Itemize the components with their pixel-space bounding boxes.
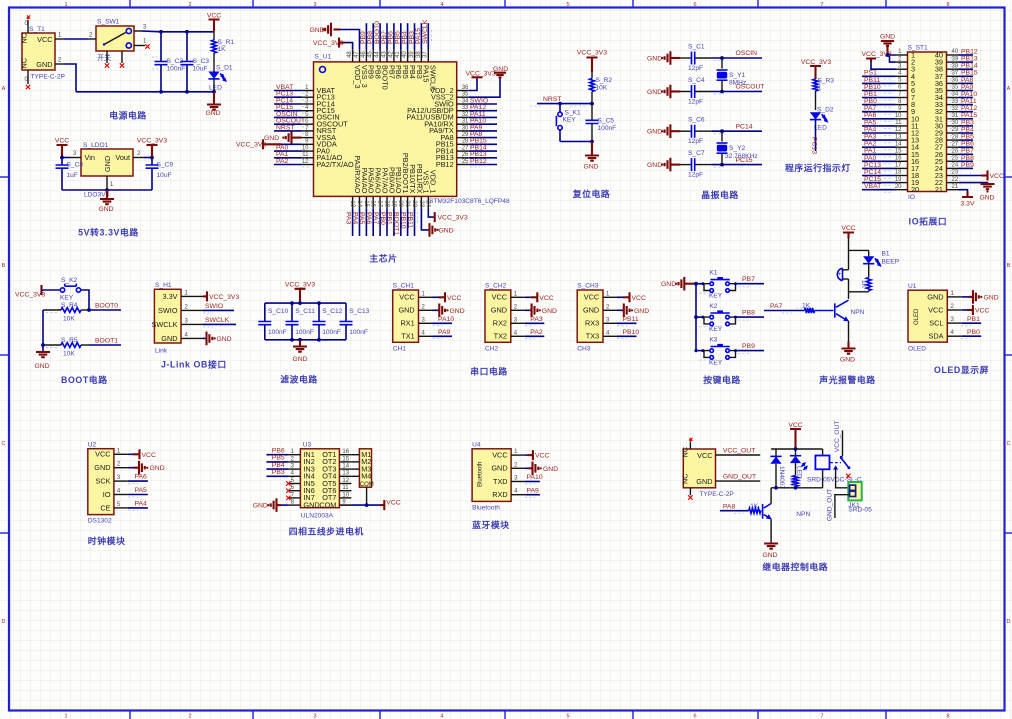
svg-text:B1: B1	[882, 251, 890, 258]
wire net PA4 clock	[128, 501, 148, 511]
svg-text:20: 20	[911, 185, 919, 194]
ground GND at OLED pin1	[962, 290, 999, 304]
svg-text:4: 4	[440, 2, 443, 8]
svg-text:PB5: PB5	[961, 134, 974, 141]
power VCC alarm	[841, 225, 855, 250]
svg-text:DS1302: DS1302	[88, 518, 112, 525]
svg-text:主芯片: 主芯片	[369, 252, 397, 263]
LDO1 regulator	[81, 142, 133, 199]
svg-text:PB7: PB7	[742, 276, 755, 283]
svg-text:6: 6	[693, 714, 696, 719]
svg-text:SCK: SCK	[95, 477, 110, 486]
LED D3 alarm	[863, 250, 880, 265]
svg-text:U2: U2	[88, 441, 97, 448]
svg-text:13: 13	[895, 134, 902, 140]
svg-text:TYPE-C-2P: TYPE-C-2P	[699, 491, 734, 498]
transistor Q2 NPN relay	[763, 488, 811, 544]
svg-text:12pF: 12pF	[688, 99, 703, 106]
svg-text:PB1: PB1	[967, 316, 980, 323]
svg-text:VCC_3V3: VCC_3V3	[862, 51, 892, 58]
svg-text:PB0: PB0	[864, 98, 877, 105]
svg-text:GND: GND	[253, 503, 268, 510]
svg-text:10K: 10K	[596, 85, 608, 92]
svg-text:GND: GND	[583, 164, 598, 171]
svg-text:串口电路: 串口电路	[470, 366, 508, 377]
LED D relay	[790, 449, 807, 479]
svg-text:3: 3	[313, 714, 316, 719]
svg-text:NC: NC	[681, 447, 690, 458]
transistor Q1 NPN alarm	[835, 292, 865, 342]
connector JK1 SRD-05	[848, 482, 872, 514]
svg-text:15: 15	[895, 149, 902, 155]
svg-text:NC: NC	[20, 58, 29, 69]
svg-text:Vin: Vin	[85, 153, 95, 162]
resistor R5	[43, 337, 89, 358]
SW1 pin 2	[88, 33, 96, 40]
crystal Y2	[717, 129, 758, 166]
S_CH3 pins	[603, 291, 617, 336]
svg-text:蓝牙模块: 蓝牙模块	[472, 519, 510, 530]
svg-text:38: 38	[416, 51, 422, 58]
svg-text:20: 20	[895, 184, 902, 190]
svg-text:4: 4	[440, 714, 443, 719]
svg-text:VCC_3V3: VCC_3V3	[137, 138, 167, 145]
svg-text:ULN2003A: ULN2003A	[301, 513, 334, 520]
svg-text:IO拓展口: IO拓展口	[909, 215, 948, 226]
alarm bottom rail	[849, 291, 869, 293]
svg-text:VCC: VCC	[990, 173, 1004, 180]
LED D2	[810, 107, 834, 132]
svg-text:VCC: VCC	[142, 452, 156, 459]
svg-text:PA2/TX/AO: PA2/TX/AO	[317, 160, 354, 169]
connector S_CH3 serial	[577, 283, 603, 353]
svg-text:22: 22	[952, 177, 959, 183]
power VCC_3V3 reset	[577, 50, 607, 73]
wire net PB9	[699, 343, 764, 360]
svg-text:1: 1	[64, 2, 67, 8]
power VCC_3V3 indicator	[801, 59, 831, 79]
svg-text:12pF: 12pF	[688, 172, 703, 179]
svg-text:S_Y2: S_Y2	[729, 145, 745, 152]
svg-text:VCC_3V3: VCC_3V3	[466, 70, 496, 77]
svg-text:22: 22	[411, 200, 417, 207]
svg-text:PC13: PC13	[864, 162, 881, 169]
power VCC_3V3 at H1 pin1	[203, 291, 239, 301]
svg-text:13: 13	[349, 200, 355, 207]
S_CH1 pins	[419, 291, 433, 336]
svg-text:1N4007: 1N4007	[778, 466, 785, 489]
wire net PA10 bluetooth	[525, 474, 543, 484]
no connect marks U3 pins 5-7	[286, 481, 290, 500]
svg-text:K1: K1	[709, 270, 717, 277]
svg-text:VCC_3V3: VCC_3V3	[801, 59, 831, 66]
wire net PB1 OLED	[961, 316, 981, 326]
wire T1 VCC to SW1	[64, 38, 88, 40]
svg-text:GND_OUT: GND_OUT	[827, 489, 834, 521]
U3 right pins	[339, 449, 351, 505]
svg-text:34: 34	[462, 98, 469, 104]
ground GND power circuit	[205, 92, 221, 117]
ST1 left net labels	[862, 70, 896, 193]
svg-text:16: 16	[370, 200, 376, 207]
svg-text:PB1: PB1	[864, 91, 877, 98]
svg-text:11: 11	[895, 120, 902, 126]
svg-text:SWCLK: SWCLK	[422, 19, 429, 44]
svg-text:5: 5	[566, 714, 569, 719]
power port VCC top	[207, 13, 221, 32]
wire BOOT left vertical	[41, 310, 45, 352]
svg-text:3.3V: 3.3V	[961, 201, 975, 208]
svg-text:OLED: OLED	[914, 308, 920, 325]
svg-text:S_C12: S_C12	[322, 308, 342, 315]
svg-text:SWCLK: SWCLK	[205, 317, 230, 324]
connector ST1 IO header	[908, 45, 947, 202]
LDO pin 1 GND	[107, 176, 114, 190]
SW1 pin 1	[134, 39, 150, 49]
ground GND at U3 pin8	[253, 498, 289, 512]
svg-text:14: 14	[342, 464, 349, 470]
svg-text:GND_OUT: GND_OUT	[723, 474, 756, 481]
ground GND at H1 pin4	[203, 332, 232, 346]
svg-text:47: 47	[354, 51, 360, 58]
wire net PA9	[433, 329, 453, 339]
svg-text:Bluetooth: Bluetooth	[472, 505, 500, 512]
svg-text:1K: 1K	[218, 46, 227, 53]
svg-text:GND: GND	[840, 357, 855, 364]
op-amp U3 ULN2003A body	[300, 441, 339, 519]
svg-text:PB3: PB3	[961, 119, 974, 126]
wire net PB10	[617, 329, 639, 339]
LED D1	[208, 65, 232, 92]
power 3.3V at ST1 pin 21	[959, 190, 975, 208]
svg-text:100nF: 100nF	[295, 329, 314, 336]
svg-text:32: 32	[462, 112, 469, 118]
svg-text:35: 35	[462, 92, 469, 98]
svg-text:BOOT1: BOOT1	[393, 212, 400, 235]
svg-text:36: 36	[462, 85, 469, 91]
capacitor S_C1	[680, 44, 712, 73]
svg-text:19: 19	[895, 177, 902, 183]
svg-text:VCC: VCC	[975, 307, 989, 314]
ground GND at S_CH3 pin2	[617, 304, 649, 318]
wire net GND_OUT from TYPE-C	[716, 474, 761, 482]
svg-text:S_U1: S_U1	[315, 54, 332, 61]
power port VCC for LDO	[55, 138, 69, 158]
svg-text:PA5: PA5	[135, 487, 148, 494]
wire COM net to VCC	[339, 487, 400, 510]
svg-text:B: B	[1007, 263, 1011, 269]
T1 pin 1 VCC	[55, 33, 64, 40]
buzzer B1 BEEP	[837, 250, 899, 291]
svg-text:29: 29	[462, 132, 469, 138]
svg-text:GND: GND	[762, 552, 777, 559]
U1 left pins with numbers	[302, 85, 314, 165]
svg-text:PB10: PB10	[623, 329, 640, 336]
svg-text:OLED: OLED	[908, 346, 926, 353]
svg-text:U4: U4	[472, 441, 481, 448]
svg-text:1K: 1K	[802, 303, 811, 310]
U4 pins	[511, 449, 525, 495]
relay switch contact	[830, 456, 850, 478]
svg-text:GND: GND	[880, 34, 895, 41]
svg-text:10K: 10K	[63, 351, 75, 358]
svg-text:GND: GND	[634, 308, 649, 315]
svg-text:PA3: PA3	[344, 212, 351, 225]
svg-text:PB6: PB6	[272, 448, 285, 455]
svg-text:VBAT: VBAT	[864, 183, 881, 190]
svg-text:KEY: KEY	[60, 295, 74, 302]
svg-text:PA2: PA2	[276, 158, 289, 165]
svg-text:S_C9: S_C9	[157, 162, 174, 169]
wire net VCC_OUT vertical	[834, 421, 843, 456]
svg-text:42: 42	[388, 51, 394, 58]
svg-text:按键电路: 按键电路	[703, 374, 741, 385]
svg-text:12: 12	[895, 127, 902, 133]
ground GND at U1 pin 23 VSS_1	[421, 208, 453, 236]
power VCC at S_CH1 pin1	[433, 292, 462, 302]
S_CH2 pins	[511, 291, 525, 336]
svg-text:PB8: PB8	[742, 310, 755, 317]
wire net PA6 clock	[128, 474, 148, 484]
svg-text:PA6: PA6	[365, 212, 372, 225]
svg-text:PA1: PA1	[864, 148, 877, 155]
svg-text:PB3: PB3	[272, 469, 285, 476]
U1 left net label wires	[274, 84, 311, 167]
svg-text:41: 41	[395, 51, 401, 58]
svg-text:继电器控制电路: 继电器控制电路	[762, 561, 828, 572]
svg-text:CH3: CH3	[577, 346, 591, 353]
svg-text:SWCLK: SWCLK	[429, 65, 438, 91]
H1 pins	[181, 290, 203, 338]
svg-text:48: 48	[347, 51, 353, 58]
push button K1	[694, 270, 735, 300]
svg-text:电源电路: 电源电路	[109, 110, 147, 121]
ST1 left pins	[895, 49, 908, 190]
svg-text:PA5: PA5	[864, 119, 877, 126]
T1 pin 2 GND	[55, 58, 64, 65]
resistor R2	[590, 72, 613, 104]
capacitor S_C4	[680, 77, 712, 106]
diode D 1N4007	[770, 449, 784, 489]
svg-text:18: 18	[895, 170, 902, 176]
svg-text:S_C8: S_C8	[67, 162, 84, 169]
svg-text:44: 44	[375, 51, 381, 58]
ground GND for S_C4	[647, 85, 680, 99]
crystal Y1	[717, 56, 747, 93]
ground GND for S_C6	[647, 124, 680, 138]
svg-text:SCL: SCL	[929, 319, 943, 328]
svg-text:2: 2	[188, 714, 191, 719]
svg-text:PB11: PB11	[864, 77, 880, 84]
LDO pin 3	[62, 151, 81, 158]
svg-text:OLED显示屏: OLED显示屏	[934, 365, 989, 375]
svg-text:晶振电路: 晶振电路	[701, 189, 739, 200]
svg-text:BEEP: BEEP	[882, 259, 900, 266]
svg-text:C: C	[2, 441, 6, 447]
ground GND at ST1 pin 22	[959, 183, 995, 202]
svg-text:S_R1: S_R1	[218, 39, 235, 46]
svg-text:PA11: PA11	[961, 98, 977, 105]
wire net BOOT1	[89, 338, 121, 346]
svg-text:PB7: PB7	[961, 148, 974, 155]
capacitor C10	[258, 303, 288, 340]
keys left vertical wire	[694, 282, 698, 351]
svg-text:PB12: PB12	[470, 158, 487, 165]
svg-text:VCC: VCC	[584, 293, 599, 302]
svg-text:SWCLK: SWCLK	[152, 320, 178, 329]
svg-text:PB10: PB10	[399, 212, 406, 229]
wire net GND_OUT vertical	[827, 489, 850, 521]
svg-text:PA7: PA7	[770, 303, 783, 310]
svg-text:15: 15	[363, 200, 369, 207]
svg-text:20: 20	[397, 200, 403, 207]
power VCC_3V3 at ST1 pin 3	[862, 51, 896, 69]
svg-text:PB9: PB9	[961, 162, 974, 169]
svg-text:SWIO: SWIO	[158, 306, 178, 315]
svg-text:IO: IO	[908, 194, 915, 201]
svg-text:3.3V: 3.3V	[162, 292, 177, 301]
svg-text:16: 16	[342, 449, 349, 455]
ground GND at U1 pin 47 VSS_3	[310, 23, 360, 50]
svg-text:PA4: PA4	[351, 212, 358, 225]
SW1 pin 3	[134, 25, 147, 32]
wire net SWIO	[203, 303, 234, 313]
svg-text:17: 17	[895, 163, 902, 169]
U2 pins	[114, 448, 128, 508]
svg-text:PA7: PA7	[372, 212, 379, 225]
svg-text:GND: GND	[491, 464, 507, 473]
capacitor C2	[152, 32, 185, 92]
power port VCC_3V3 for LDO out	[137, 138, 167, 158]
wires U3 outputs to motor header	[351, 455, 359, 477]
svg-text:PA12: PA12	[961, 105, 977, 112]
power VCC_3V3 at U1 pin 24 VDD_1	[428, 208, 468, 222]
svg-text:S_H1: S_H1	[155, 282, 172, 289]
wire VCC_3V3 to K2	[42, 289, 61, 291]
svg-text:15: 15	[342, 456, 349, 462]
svg-text:GND: GND	[398, 306, 414, 315]
svg-text:PB11: PB11	[623, 316, 639, 323]
svg-text:S_CH3: S_CH3	[577, 283, 599, 290]
svg-text:NRST: NRST	[543, 96, 562, 103]
svg-text:GND: GND	[98, 206, 113, 213]
svg-text:TX2: TX2	[494, 332, 507, 341]
svg-text:GND: GND	[303, 500, 319, 509]
svg-text:37: 37	[423, 51, 429, 58]
wire K2 to BOOT0	[81, 290, 89, 310]
wire net OSCOUT	[712, 84, 765, 94]
U1 left pin names	[317, 86, 354, 169]
capacitor C13	[340, 303, 370, 340]
svg-text:S_R4: S_R4	[61, 302, 78, 309]
svg-text:VDD_1: VDD_1	[429, 170, 438, 194]
svg-text:19: 19	[390, 200, 396, 207]
svg-text:VCC_3V3: VCC_3V3	[285, 282, 315, 289]
capacitor C11	[286, 303, 316, 340]
ST1 right pins	[947, 49, 959, 190]
svg-text:VCC: VCC	[535, 453, 549, 460]
resistor R3	[813, 78, 834, 111]
svg-text:VCC_3V3: VCC_3V3	[209, 294, 239, 301]
svg-text:S_R5: S_R5	[61, 337, 78, 344]
svg-text:GND: GND	[543, 466, 558, 473]
push button K2	[694, 303, 735, 333]
svg-text:Vout: Vout	[115, 153, 130, 162]
svg-text:OSCIN: OSCIN	[736, 50, 758, 57]
filter bottom rail	[265, 338, 346, 342]
svg-text:13: 13	[342, 471, 349, 477]
svg-text:PB9: PB9	[742, 343, 755, 350]
svg-text:VCC: VCC	[55, 138, 69, 145]
svg-text:NRST: NRST	[276, 124, 295, 131]
svg-text:GND: GND	[647, 55, 662, 62]
svg-text:开关: 开关	[97, 53, 111, 62]
U1 right net label wires	[469, 97, 497, 167]
svg-text:PB11: PB11	[406, 212, 413, 228]
svg-text:1K: 1K	[860, 280, 867, 289]
svg-text:PB4: PB4	[961, 126, 974, 133]
push button K2	[60, 277, 81, 302]
svg-text:D: D	[2, 619, 6, 625]
svg-text:SWIO: SWIO	[205, 303, 223, 310]
svg-text:100nF: 100nF	[268, 329, 287, 336]
svg-text:PA10: PA10	[438, 316, 454, 323]
svg-text:TYPE-C-2P: TYPE-C-2P	[31, 74, 66, 81]
svg-text:RX2: RX2	[493, 319, 507, 328]
svg-text:10: 10	[895, 113, 902, 119]
svg-text:VCC: VCC	[447, 295, 461, 302]
svg-text:10: 10	[342, 492, 349, 498]
svg-text:GND: GND	[979, 195, 994, 202]
svg-text:VCC: VCC	[928, 305, 943, 314]
connector U1 OLED display	[908, 283, 947, 353]
connector TYPE-C-2P relay	[681, 447, 735, 498]
svg-text:PA5: PA5	[358, 212, 365, 225]
ground GND for S_C1	[647, 51, 680, 65]
power VCC_3V3 BOOT	[15, 285, 45, 298]
svg-text:VCC: VCC	[492, 293, 507, 302]
svg-text:GND: GND	[491, 306, 507, 315]
svg-text:21: 21	[935, 185, 943, 194]
connector U2 DS1302 clock	[88, 441, 114, 524]
svg-text:U1: U1	[908, 283, 917, 290]
svg-text:VCC: VCC	[399, 293, 414, 302]
svg-text:25: 25	[462, 159, 469, 165]
svg-text:33: 33	[462, 105, 469, 111]
resistor 1K relay	[790, 463, 798, 488]
svg-text:LDO3V3: LDO3V3	[84, 192, 110, 199]
ground GND LDO	[98, 190, 114, 213]
ST1 right net labels	[950, 48, 978, 171]
capacitor S_C7	[680, 150, 712, 179]
svg-text:RX3: RX3	[585, 319, 599, 328]
svg-text:100nF: 100nF	[598, 125, 617, 132]
LDO pin 2	[133, 151, 152, 158]
svg-text:D: D	[1007, 619, 1011, 625]
svg-text:14: 14	[895, 141, 902, 147]
svg-text:GND: GND	[264, 135, 279, 142]
svg-text:程序运行指示灯: 程序运行指示灯	[785, 162, 851, 173]
svg-text:VCC: VCC	[788, 422, 802, 429]
svg-text:VCC: VCC	[539, 295, 553, 302]
svg-text:S_C10: S_C10	[268, 308, 288, 315]
wire net PA5 clock	[128, 487, 148, 497]
wire net OSCIN	[712, 50, 762, 60]
wire switch to JK1	[836, 468, 850, 488]
svg-text:BOOT1: BOOT1	[95, 338, 118, 345]
svg-text:STM32F103C8T6_LQFP48: STM32F103C8T6_LQFP48	[429, 198, 510, 205]
svg-text:J-Link OB接口: J-Link OB接口	[161, 359, 227, 370]
